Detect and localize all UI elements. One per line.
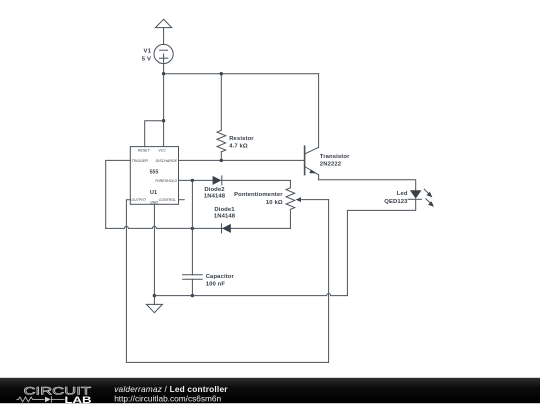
label Capacitor 100 nF <box>206 274 235 288</box>
svg-text:THRESHOLD: THRESHOLD <box>155 179 178 183</box>
svg-text:Led: Led <box>397 191 408 197</box>
svg-text:valderramaz / Led controller: valderramaz / Led controller <box>114 384 228 394</box>
node: gnd junction <box>153 294 156 297</box>
footer bar <box>0 378 540 403</box>
svg-text:10 kΩ: 10 kΩ <box>266 200 283 206</box>
label Pontentiomenter 10 kOhm <box>234 192 283 206</box>
transistor Q (2N2222) <box>305 74 319 180</box>
label Diode1 1N4148 <box>214 207 236 219</box>
node: resistor top junction <box>220 72 223 75</box>
svg-text:1N4148: 1N4148 <box>204 193 226 199</box>
wire: V1 bottom to rail <box>163 64 165 74</box>
svg-text:TRIGGER: TRIGGER <box>132 159 149 163</box>
wire: top rail <box>164 73 319 75</box>
wire: OUTPUT down left side <box>126 200 130 363</box>
diode D1 (1N4148, pointing left) <box>222 224 231 233</box>
svg-text:VCC: VCC <box>158 149 166 153</box>
wire: CONTROL stub <box>179 199 185 201</box>
svg-text:Capacitor: Capacitor <box>206 274 235 280</box>
node: threshold/cap junction <box>191 179 194 182</box>
svg-text:Pontentiomenter: Pontentiomenter <box>234 192 283 198</box>
svg-text:555: 555 <box>150 170 159 176</box>
label Resistor 4.7 kOhm <box>229 136 254 149</box>
wire: bottom return <box>126 361 328 363</box>
node: capacitor/gnd junction <box>191 294 194 297</box>
power flag triangle (top) <box>155 19 171 27</box>
wire: GND pin down <box>153 204 155 304</box>
svg-text:http://circuitlab.com/cs6sm6n: http://circuitlab.com/cs6sm6n <box>114 393 221 403</box>
wire: flag to V1 top <box>163 28 165 45</box>
wire: TRIGGER loop left <box>106 160 131 228</box>
wire: LED cathode to ground line <box>347 199 415 295</box>
svg-text:CONTROL: CONTROL <box>159 198 177 202</box>
wire: DISCHARGE to base <box>179 159 305 161</box>
op 555 timer U1 box <box>130 147 178 205</box>
wire: THRESHOLD line <box>179 179 291 181</box>
node: reset branch junction <box>162 119 165 122</box>
wire: rail down to VCC <box>163 74 165 147</box>
svg-text:LAB: LAB <box>65 395 92 405</box>
label Transistor 2N2222 <box>320 154 350 168</box>
node: resistor bottom junction <box>220 159 223 162</box>
svg-text:RESET: RESET <box>138 149 151 153</box>
wire: trigger line with hops <box>106 226 291 228</box>
potentiometer (10k) <box>286 180 329 228</box>
wire: threshold/trigger tie down to capacitor <box>191 180 193 274</box>
svg-text:GND: GND <box>150 200 158 204</box>
svg-text:V1: V1 <box>144 48 152 54</box>
capacitor C (100 nF) <box>183 275 203 296</box>
ground symbol <box>146 304 162 312</box>
wire: ground line with hop <box>154 294 347 296</box>
resistor R (4.7k) <box>217 74 226 161</box>
label Led QED123 <box>384 191 408 205</box>
svg-text:2N2222: 2N2222 <box>320 162 342 168</box>
label V1 5 V <box>142 48 152 62</box>
svg-text:Diode2: Diode2 <box>204 187 225 193</box>
svg-text:DISCHARGE: DISCHARGE <box>156 159 178 163</box>
node: trigger/cap junction <box>191 227 194 230</box>
svg-text:OUTPUT: OUTPUT <box>131 198 147 202</box>
footer text <box>114 384 228 404</box>
svg-text:1N4148: 1N4148 <box>214 213 236 219</box>
wire: emitter to LED anode <box>319 180 416 190</box>
label Diode2 1N4148 <box>204 187 226 199</box>
diode D2 (1N4148, pointing right) <box>213 176 222 185</box>
svg-text:100 nF: 100 nF <box>206 281 226 287</box>
svg-text:4.7 kΩ: 4.7 kΩ <box>229 144 248 150</box>
wire: wiper down to bottom return <box>328 200 330 363</box>
svg-text:Diode1: Diode1 <box>214 207 235 213</box>
voltage source V1 <box>154 44 173 63</box>
svg-text:5 V: 5 V <box>142 57 151 63</box>
wire: branch to RESET pin <box>145 121 164 147</box>
LED D (QED123) <box>408 189 434 207</box>
svg-text:U1: U1 <box>150 190 157 196</box>
svg-text:Resistor: Resistor <box>229 136 254 142</box>
svg-text:QED123: QED123 <box>384 199 408 205</box>
CircuitLab logo <box>17 385 92 405</box>
svg-text:Transistor: Transistor <box>320 154 350 160</box>
pin labels 555 <box>131 149 177 205</box>
node: V1/rail junction <box>162 72 165 75</box>
